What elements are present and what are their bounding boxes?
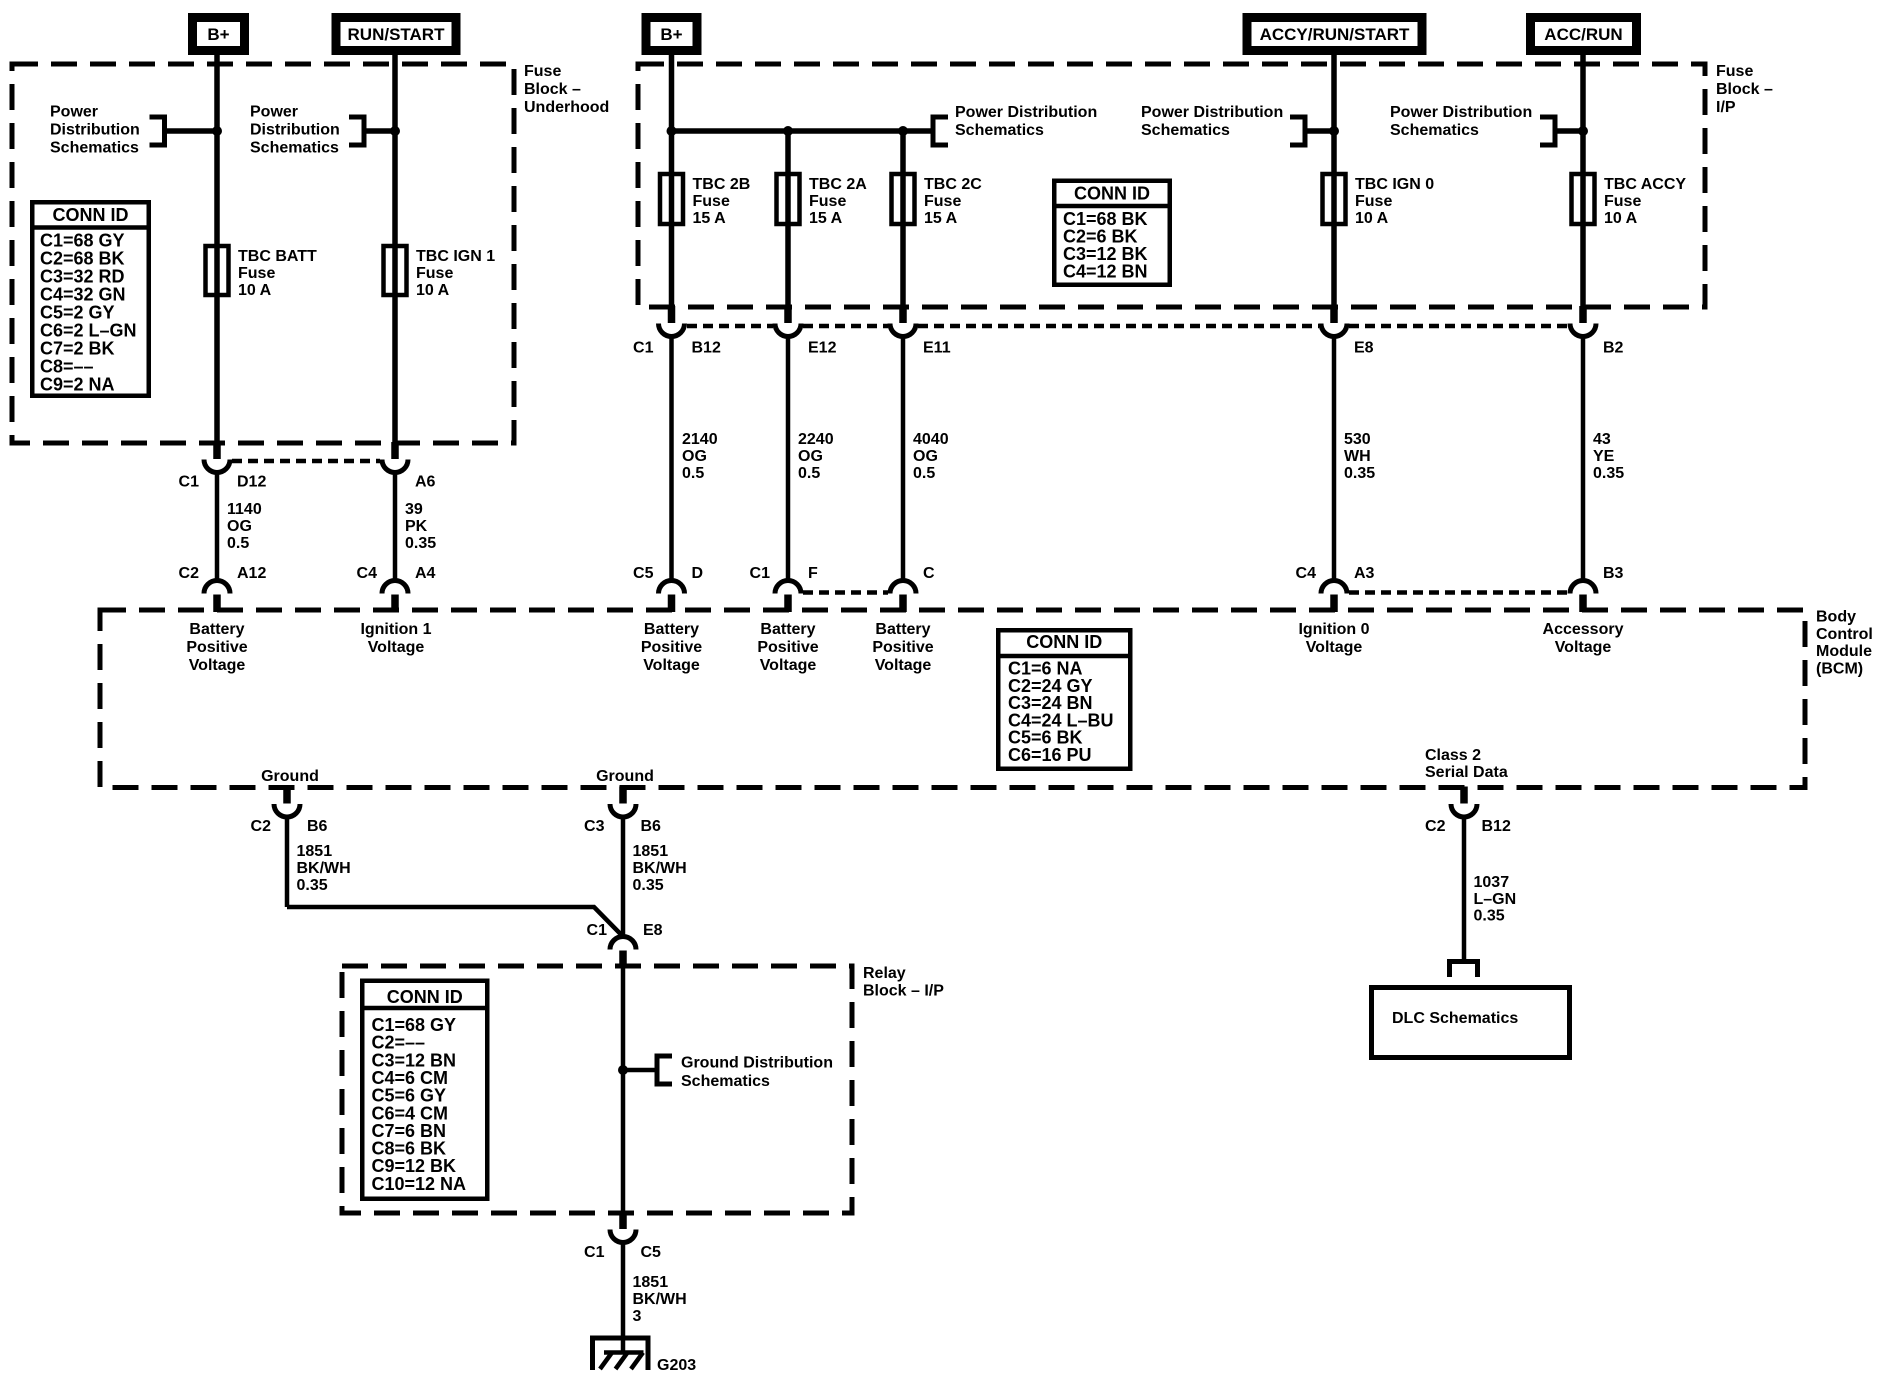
svg-text:530: 530 <box>1344 431 1371 448</box>
svg-text:1851: 1851 <box>633 1274 669 1291</box>
svg-text:TBC ACCY: TBC ACCY <box>1604 176 1686 193</box>
svg-text:Battery: Battery <box>875 621 930 638</box>
svg-text:TBC 2C: TBC 2C <box>924 176 982 193</box>
svg-text:I/P: I/P <box>1716 99 1736 116</box>
svg-text:C5=2 GY: C5=2 GY <box>40 303 115 323</box>
svg-text:CONN ID: CONN ID <box>53 205 129 225</box>
svg-text:C5: C5 <box>633 565 654 582</box>
svg-text:Block –: Block – <box>524 81 581 98</box>
svg-text:10 A: 10 A <box>1604 210 1638 227</box>
svg-text:CONN ID: CONN ID <box>1026 632 1102 652</box>
svg-text:Battery: Battery <box>644 621 699 638</box>
svg-text:YE: YE <box>1593 448 1615 465</box>
svg-text:C10=12 NA: C10=12 NA <box>372 1174 467 1194</box>
svg-text:10 A: 10 A <box>1355 210 1389 227</box>
svg-text:D: D <box>692 565 704 582</box>
svg-text:0.35: 0.35 <box>1344 465 1375 482</box>
svg-text:Fuse: Fuse <box>693 193 730 210</box>
svg-text:C1: C1 <box>587 922 608 939</box>
svg-text:C2: C2 <box>251 818 272 835</box>
svg-text:Fuse: Fuse <box>416 265 453 282</box>
svg-text:G203: G203 <box>657 1357 696 1374</box>
svg-text:B+: B+ <box>660 25 682 44</box>
svg-text:39: 39 <box>405 501 423 518</box>
svg-text:BK/WH: BK/WH <box>633 860 687 877</box>
svg-text:Battery: Battery <box>760 621 815 638</box>
svg-text:Ground: Ground <box>596 768 654 785</box>
svg-text:B12: B12 <box>1482 818 1511 835</box>
svg-text:Control: Control <box>1816 626 1873 643</box>
svg-text:Fuse: Fuse <box>238 265 275 282</box>
svg-text:C8=––: C8=–– <box>40 357 94 377</box>
svg-text:C2: C2 <box>179 565 200 582</box>
svg-text:C1: C1 <box>633 340 654 357</box>
svg-text:C1: C1 <box>179 474 200 491</box>
svg-text:Fuse: Fuse <box>1355 193 1392 210</box>
svg-text:Block – I/P: Block – I/P <box>863 983 944 1000</box>
svg-text:0.35: 0.35 <box>1593 465 1624 482</box>
svg-text:0.5: 0.5 <box>682 465 704 482</box>
svg-text:C1: C1 <box>750 565 771 582</box>
svg-text:C4=12 BN: C4=12 BN <box>1063 262 1148 282</box>
svg-text:OG: OG <box>913 448 938 465</box>
svg-text:Positive: Positive <box>872 639 933 656</box>
svg-text:Fuse: Fuse <box>1716 63 1753 80</box>
svg-text:0.35: 0.35 <box>405 535 436 552</box>
svg-text:PK: PK <box>405 518 428 535</box>
svg-text:CONN ID: CONN ID <box>387 987 463 1007</box>
svg-text:Schematics: Schematics <box>955 122 1044 139</box>
svg-text:2240: 2240 <box>798 431 834 448</box>
svg-text:Module: Module <box>1816 643 1872 660</box>
svg-text:A3: A3 <box>1354 565 1375 582</box>
svg-text:Relay: Relay <box>863 965 906 982</box>
svg-text:F: F <box>808 565 818 582</box>
svg-text:C2=68 BK: C2=68 BK <box>40 249 125 269</box>
svg-text:0.35: 0.35 <box>297 877 328 894</box>
svg-text:C4=32 GN: C4=32 GN <box>40 285 126 305</box>
svg-text:E12: E12 <box>808 340 837 357</box>
svg-text:15 A: 15 A <box>924 210 958 227</box>
svg-text:0.35: 0.35 <box>1474 908 1505 925</box>
svg-text:Schematics: Schematics <box>1390 122 1479 139</box>
svg-text:C3: C3 <box>584 818 605 835</box>
svg-text:C1: C1 <box>584 1244 605 1261</box>
svg-text:B3: B3 <box>1603 565 1624 582</box>
svg-text:OG: OG <box>227 518 252 535</box>
svg-text:Voltage: Voltage <box>1306 639 1363 656</box>
svg-text:C: C <box>923 565 935 582</box>
svg-text:Fuse: Fuse <box>1604 193 1641 210</box>
svg-text:B12: B12 <box>692 340 721 357</box>
svg-text:E8: E8 <box>1354 340 1374 357</box>
svg-text:C4: C4 <box>1296 565 1317 582</box>
svg-text:Power: Power <box>250 104 298 121</box>
svg-text:Power: Power <box>50 104 98 121</box>
svg-text:OG: OG <box>798 448 823 465</box>
svg-text:Fuse: Fuse <box>524 63 561 80</box>
svg-text:B+: B+ <box>207 25 229 44</box>
svg-text:Ignition 1: Ignition 1 <box>360 621 431 638</box>
svg-text:Power Distribution: Power Distribution <box>955 104 1097 121</box>
svg-text:Serial Data: Serial Data <box>1425 764 1508 781</box>
svg-text:E8: E8 <box>643 922 663 939</box>
svg-text:Battery: Battery <box>189 621 244 638</box>
svg-text:C7=2 BK: C7=2 BK <box>40 339 115 359</box>
svg-text:Underhood: Underhood <box>524 99 609 116</box>
svg-text:Block –: Block – <box>1716 81 1773 98</box>
svg-text:Schematics: Schematics <box>50 140 139 157</box>
svg-text:3: 3 <box>633 1308 642 1325</box>
svg-text:A4: A4 <box>415 565 436 582</box>
svg-text:Ground: Ground <box>261 768 319 785</box>
svg-text:0.35: 0.35 <box>633 877 664 894</box>
svg-text:OG: OG <box>682 448 707 465</box>
svg-text:0.5: 0.5 <box>913 465 935 482</box>
svg-text:Schematics: Schematics <box>1141 122 1230 139</box>
svg-text:TBC IGN 1: TBC IGN 1 <box>416 248 495 265</box>
svg-text:C4: C4 <box>357 565 378 582</box>
svg-text:43: 43 <box>1593 431 1611 448</box>
svg-text:TBC BATT: TBC BATT <box>238 248 317 265</box>
svg-text:Schematics: Schematics <box>250 140 339 157</box>
svg-text:2140: 2140 <box>682 431 718 448</box>
svg-text:Voltage: Voltage <box>643 657 700 674</box>
svg-text:C2: C2 <box>1425 818 1446 835</box>
svg-text:A6: A6 <box>415 474 436 491</box>
svg-text:A12: A12 <box>237 565 266 582</box>
svg-text:WH: WH <box>1344 448 1371 465</box>
svg-text:(BCM): (BCM) <box>1816 660 1863 677</box>
svg-text:Fuse: Fuse <box>809 193 846 210</box>
svg-text:CONN ID: CONN ID <box>1074 184 1150 204</box>
svg-text:10 A: 10 A <box>238 282 272 299</box>
svg-text:BK/WH: BK/WH <box>633 1291 687 1308</box>
svg-text:Fuse: Fuse <box>924 193 961 210</box>
svg-text:Voltage: Voltage <box>875 657 932 674</box>
svg-text:TBC 2A: TBC 2A <box>809 176 867 193</box>
svg-text:Positive: Positive <box>641 639 702 656</box>
svg-text:E11: E11 <box>923 340 951 357</box>
svg-text:B2: B2 <box>1603 340 1624 357</box>
svg-text:10 A: 10 A <box>416 282 450 299</box>
svg-text:Distribution: Distribution <box>250 122 340 139</box>
svg-text:1140: 1140 <box>227 501 262 518</box>
svg-text:RUN/START: RUN/START <box>348 25 446 44</box>
svg-text:B6: B6 <box>307 818 328 835</box>
svg-text:D12: D12 <box>237 474 266 491</box>
svg-text:Ground Distribution: Ground Distribution <box>681 1055 833 1072</box>
svg-text:L–GN: L–GN <box>1474 891 1517 908</box>
svg-text:1851: 1851 <box>297 843 333 860</box>
svg-text:Voltage: Voltage <box>368 639 425 656</box>
svg-text:Voltage: Voltage <box>1555 639 1612 656</box>
svg-text:0.5: 0.5 <box>227 535 249 552</box>
svg-text:C9=2 NA: C9=2 NA <box>40 375 115 395</box>
svg-text:TBC IGN 0: TBC IGN 0 <box>1355 176 1434 193</box>
svg-text:Voltage: Voltage <box>760 657 817 674</box>
svg-text:ACCY/RUN/START: ACCY/RUN/START <box>1260 25 1410 44</box>
svg-text:15 A: 15 A <box>693 210 727 227</box>
svg-text:Distribution: Distribution <box>50 122 140 139</box>
svg-text:C5: C5 <box>641 1244 662 1261</box>
svg-text:Positive: Positive <box>186 639 247 656</box>
svg-text:TBC 2B: TBC 2B <box>693 176 751 193</box>
svg-text:Class 2: Class 2 <box>1425 747 1481 764</box>
svg-text:C1=68 GY: C1=68 GY <box>40 231 125 251</box>
svg-text:Ignition 0: Ignition 0 <box>1298 621 1369 638</box>
svg-text:1037: 1037 <box>1474 874 1510 891</box>
svg-text:Accessory: Accessory <box>1543 621 1624 638</box>
svg-text:15 A: 15 A <box>809 210 843 227</box>
svg-text:B6: B6 <box>641 818 662 835</box>
svg-text:BK/WH: BK/WH <box>297 860 351 877</box>
svg-text:Power Distribution: Power Distribution <box>1141 104 1283 121</box>
svg-text:Body: Body <box>1816 609 1856 626</box>
svg-text:Schematics: Schematics <box>681 1073 770 1090</box>
svg-text:Positive: Positive <box>757 639 818 656</box>
svg-text:0.5: 0.5 <box>798 465 820 482</box>
svg-text:C6=2 L–GN: C6=2 L–GN <box>40 321 137 341</box>
svg-text:4040: 4040 <box>913 431 949 448</box>
svg-text:1851: 1851 <box>633 843 669 860</box>
svg-text:Power Distribution: Power Distribution <box>1390 104 1532 121</box>
svg-text:C6=16 PU: C6=16 PU <box>1008 745 1092 765</box>
svg-text:DLC Schematics: DLC Schematics <box>1392 1010 1518 1027</box>
svg-text:ACC/RUN: ACC/RUN <box>1544 25 1622 44</box>
svg-text:Voltage: Voltage <box>189 657 246 674</box>
svg-text:C3=32 RD: C3=32 RD <box>40 267 125 287</box>
